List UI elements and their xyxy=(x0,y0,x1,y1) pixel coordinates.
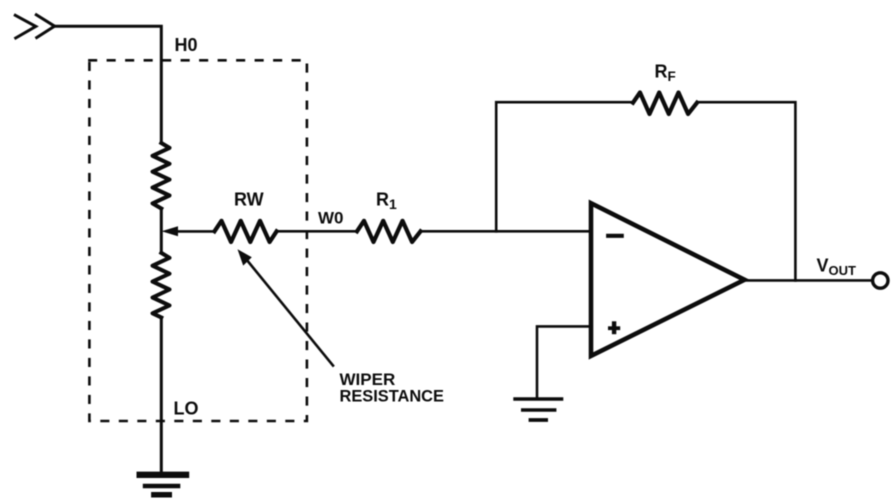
svg-text:R1: R1 xyxy=(376,190,397,213)
svg-text:H0: H0 xyxy=(175,35,198,55)
svg-text:W0: W0 xyxy=(318,209,344,228)
svg-text:VOUT: VOUT xyxy=(817,256,857,279)
svg-text:RESISTANCE: RESISTANCE xyxy=(340,388,444,406)
svg-text:RF: RF xyxy=(655,62,676,85)
svg-text:RW: RW xyxy=(234,190,264,210)
svg-text:LO: LO xyxy=(174,399,199,419)
svg-text:WIPER: WIPER xyxy=(340,370,396,389)
